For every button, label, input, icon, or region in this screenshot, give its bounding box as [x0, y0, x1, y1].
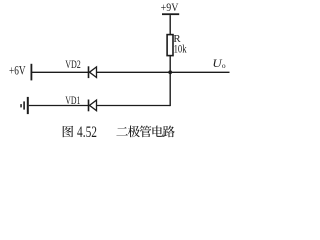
- caption char 路: [163, 126, 175, 138]
- svg-text:o: o: [222, 61, 226, 70]
- ground: [20, 97, 29, 114]
- label Uo: [212, 58, 226, 70]
- wire ground through VD1 to node branch: [29, 105, 170, 107]
- resistor R 10k body: [167, 35, 173, 56]
- caption char 图: [63, 126, 73, 137]
- wire output node down to VD1 branch: [169, 72, 171, 106]
- caption char 管: [140, 126, 152, 138]
- svg-text:+6V: +6V: [9, 63, 26, 77]
- svg-text:10k: 10k: [174, 43, 187, 56]
- input terminal +6V bar: [31, 64, 33, 81]
- svg-text:VD1: VD1: [65, 94, 80, 107]
- node junction dot: [168, 70, 172, 74]
- svg-text:VD2: VD2: [65, 58, 81, 71]
- diode VD1: [89, 100, 97, 112]
- power terminal +9V bar: [162, 13, 179, 15]
- caption char 电: [152, 126, 163, 137]
- diode VD2: [89, 66, 97, 78]
- caption char 二: [116, 127, 127, 135]
- caption char 极: [128, 126, 140, 138]
- wire +6V terminal through VD2 to output node and Uo: [31, 71, 229, 73]
- svg-text:4.52: 4.52: [77, 122, 97, 141]
- wire resistor R to output node: [169, 56, 171, 73]
- svg-text:+9V: +9V: [161, 1, 179, 14]
- wire +9V terminal to resistor R: [169, 15, 171, 34]
